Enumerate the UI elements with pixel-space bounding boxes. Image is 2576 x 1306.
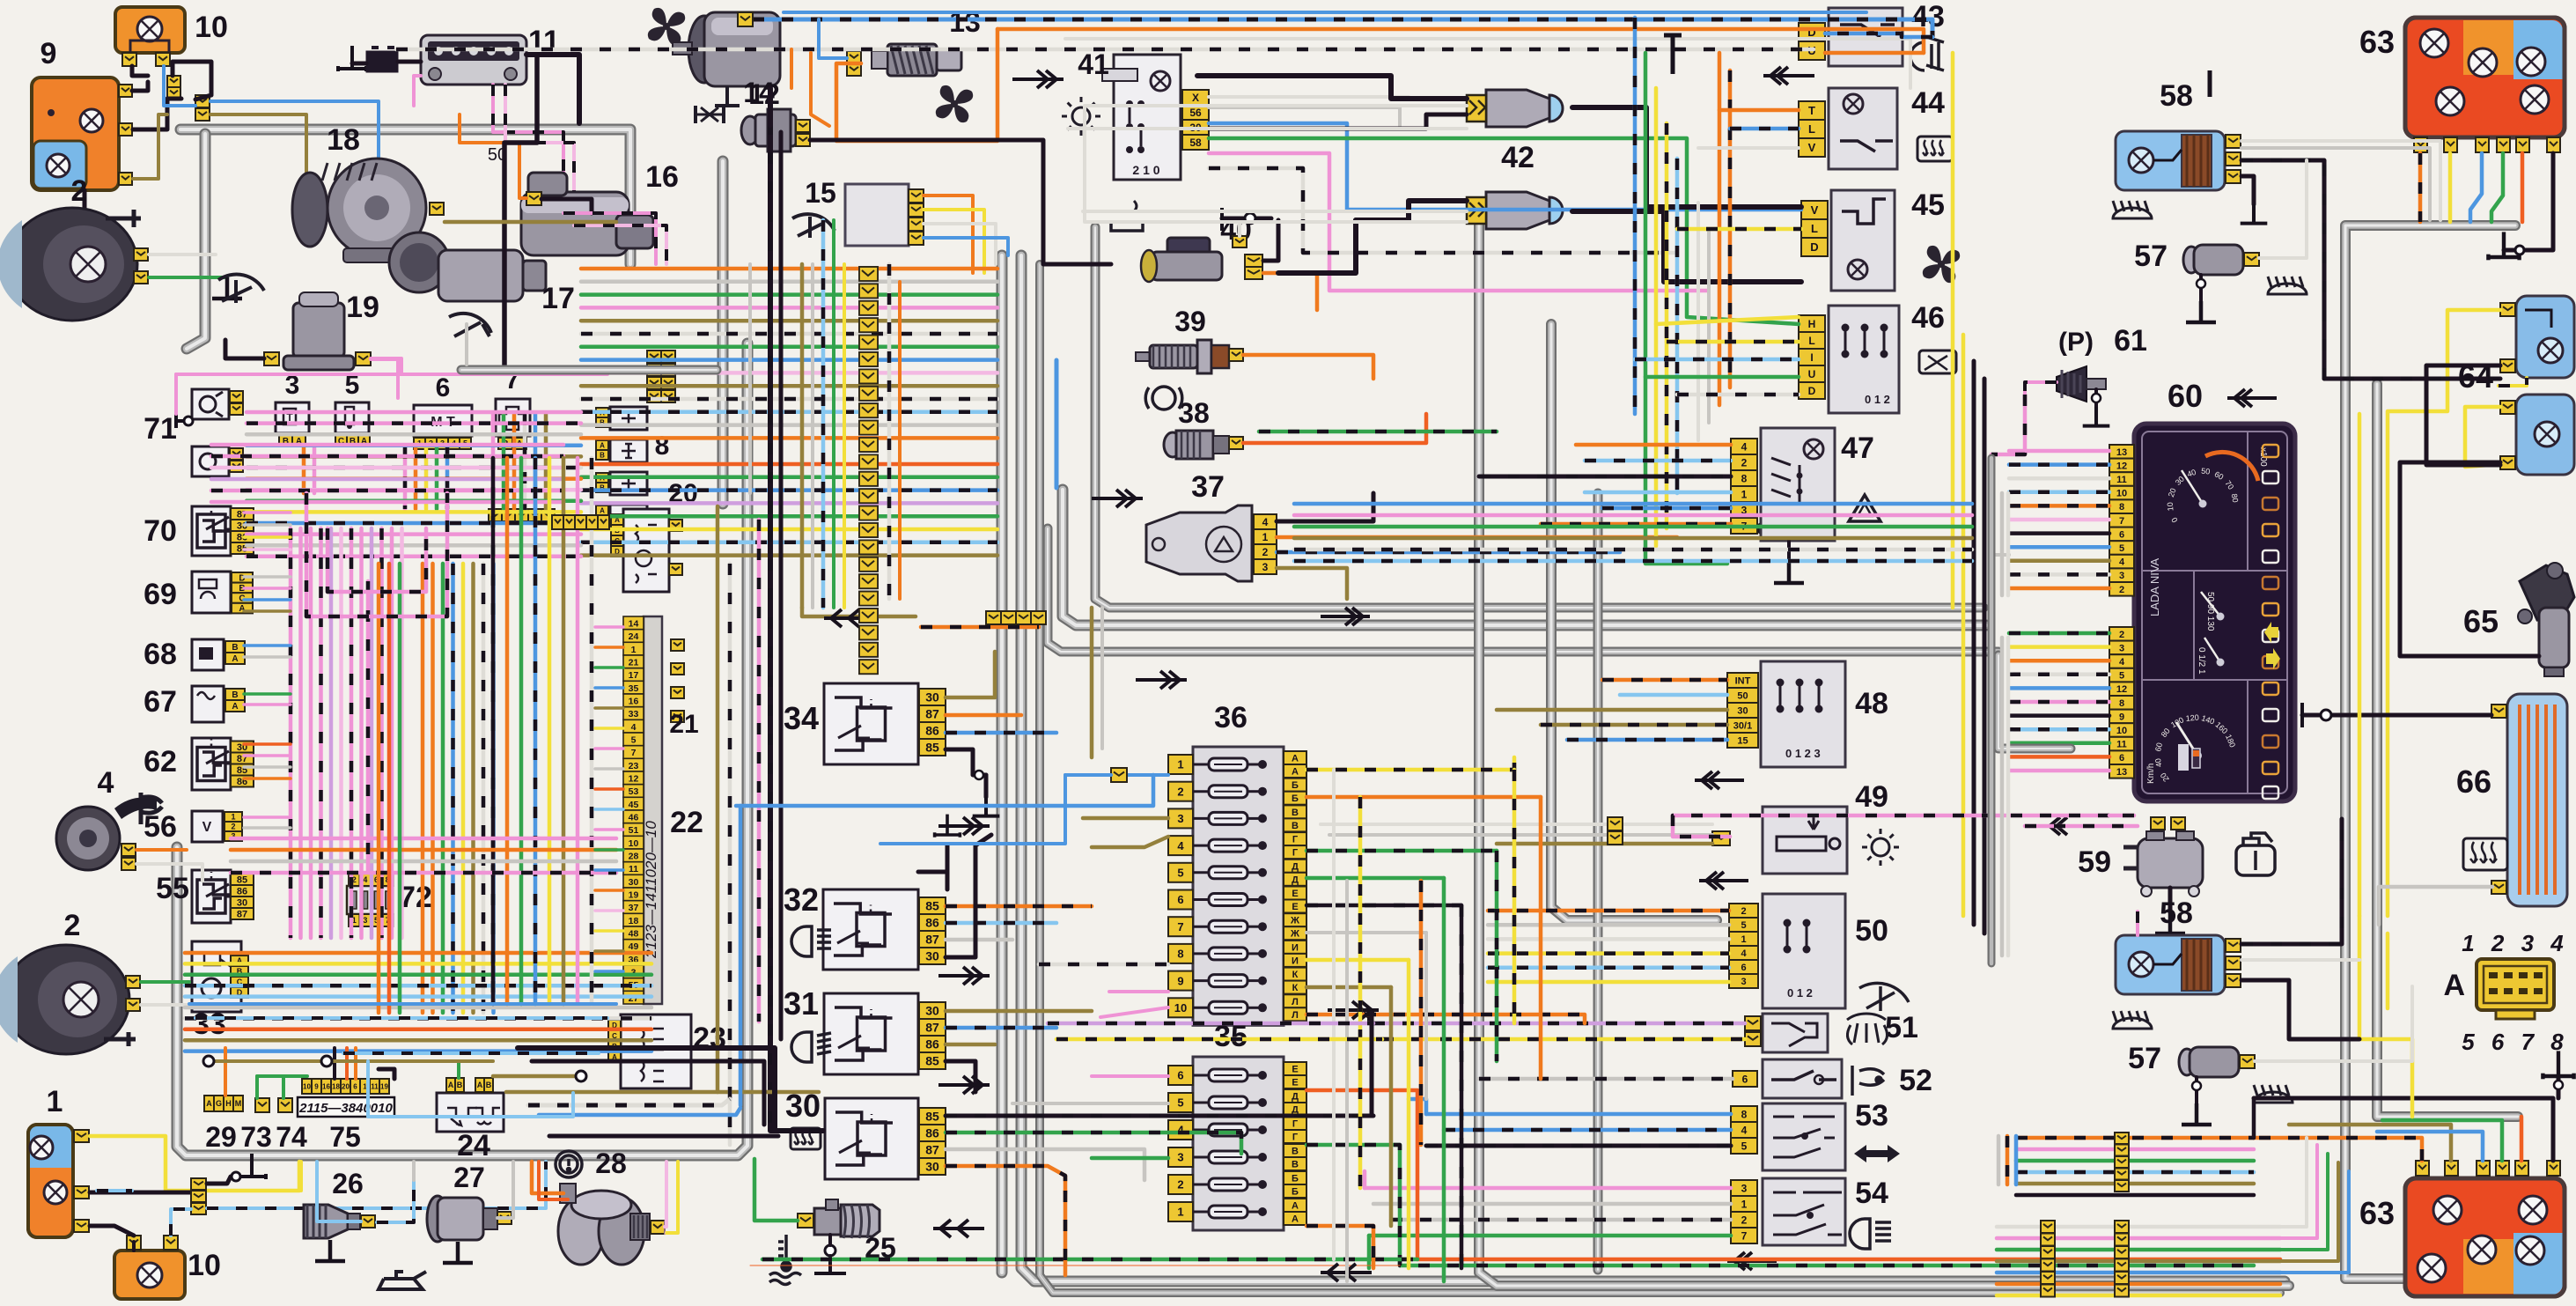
svg-text:B: B <box>457 1081 463 1089</box>
svg-text:2: 2 <box>64 909 81 942</box>
wire 35-5 <box>1012 1102 1168 1105</box>
svg-text:5: 5 <box>1177 1096 1183 1110</box>
svg-text:45: 45 <box>629 800 639 810</box>
handbrake icon <box>1145 387 1182 410</box>
wire <box>946 904 1092 909</box>
svg-text:6: 6 <box>436 373 451 402</box>
wire 36-V <box>1306 849 1497 853</box>
wire <box>132 66 148 76</box>
svg-text:D: D <box>1810 240 1818 254</box>
wire <box>2009 673 2109 677</box>
wire <box>1243 355 1373 379</box>
svg-text:12: 12 <box>2116 461 2127 471</box>
svg-text:10: 10 <box>2166 502 2175 512</box>
heated rear window icon <box>1917 137 1953 161</box>
wire <box>354 1048 357 1079</box>
svg-text:1: 1 <box>1177 758 1183 771</box>
svg-text:2: 2 <box>1262 546 1269 558</box>
wire <box>800 264 805 608</box>
wire to 44 <box>1719 108 1799 113</box>
svg-text:INT: INT <box>1735 676 1751 687</box>
wire <box>379 1069 394 1079</box>
wire to 43D <box>1825 33 1932 37</box>
wire white-dash vertical <box>728 564 732 1145</box>
switch 46 <box>1829 306 1899 413</box>
svg-text:A: A <box>206 1099 212 1108</box>
relay 3 <box>276 402 309 433</box>
wire ecu stub <box>595 868 623 872</box>
relay 34 <box>824 683 946 764</box>
arrow symbol <box>1328 1001 1379 1019</box>
svg-text:73: 73 <box>240 1121 272 1153</box>
svg-text:0 1/2 1: 0 1/2 1 <box>2197 647 2206 675</box>
connector <box>1111 768 1127 782</box>
wire <box>946 1061 975 1092</box>
light rays icon <box>2113 201 2152 218</box>
svg-text:30: 30 <box>925 1004 939 1018</box>
wire 36-4 <box>1092 837 1168 847</box>
svg-text:D: D <box>1808 385 1816 397</box>
wire 42a <box>1197 76 1467 99</box>
wire <box>282 1076 285 1098</box>
svg-text:80: 80 <box>2230 493 2241 504</box>
svg-text:13: 13 <box>2116 447 2127 458</box>
svg-text:0 1 2: 0 1 2 <box>1865 393 1890 406</box>
washer icon <box>1847 1014 1888 1044</box>
fuse 36.4 <box>1168 836 1193 855</box>
svg-text:8: 8 <box>655 432 670 461</box>
wire <box>2382 1120 2502 1161</box>
wire 42b <box>1356 201 1467 220</box>
svg-text:T: T <box>1808 104 1815 117</box>
wire to 45L <box>1677 227 1801 232</box>
wire <box>1409 1099 1426 1114</box>
connector 74 <box>303 1098 317 1112</box>
wire <box>506 1090 718 1095</box>
wire <box>946 1133 1241 1154</box>
fuse 36.2 <box>1168 782 1193 801</box>
wire harness pipe v3 <box>1040 264 2280 1293</box>
svg-text:72: 72 <box>399 881 432 914</box>
wire ecu stub <box>595 909 623 912</box>
svg-text:33: 33 <box>193 1007 226 1041</box>
switch 45 <box>1831 190 1895 291</box>
valve icon <box>696 106 724 123</box>
arrow symbol <box>938 817 990 835</box>
wire harness frame 55 <box>177 343 747 1155</box>
wire <box>1090 608 1094 757</box>
wire <box>1539 797 1543 1079</box>
wiper icon <box>449 314 491 336</box>
svg-text:7: 7 <box>1741 1229 1748 1242</box>
wire <box>2280 1171 2349 1273</box>
svg-text:8: 8 <box>1741 472 1748 484</box>
wire to 50 <box>1488 923 1729 927</box>
wire to 44L <box>1730 127 1799 131</box>
connector 21 <box>671 639 684 651</box>
wire 36-D <box>1306 904 1461 908</box>
arrow symbol <box>938 967 990 985</box>
wire 14 output <box>810 140 1111 264</box>
svg-text:Г: Г <box>1292 848 1299 859</box>
svg-text:В: В <box>1292 821 1299 831</box>
wire <box>1243 414 1426 443</box>
light switch 41 <box>1102 55 1181 180</box>
svg-text:50 90 130: 50 90 130 <box>2205 592 2215 631</box>
svg-text:3: 3 <box>1177 812 1183 825</box>
fuse 36.6 <box>1168 890 1193 910</box>
svg-text:39: 39 <box>1174 306 1206 337</box>
wire yellow right <box>2358 414 2362 916</box>
wire <box>1370 1013 1374 1116</box>
ground <box>2083 407 2110 426</box>
cigarette icon <box>1111 201 1143 231</box>
svg-text:69: 69 <box>144 578 177 611</box>
washer jug icon <box>2236 833 2275 875</box>
wire <box>946 835 991 957</box>
wire <box>1419 881 1424 1145</box>
wire khaki <box>445 220 616 225</box>
wire ecu stub <box>595 848 623 852</box>
interior lamp 58 top <box>2116 131 2225 190</box>
wire <box>574 225 666 264</box>
wire harness pipe v5 <box>1063 490 1986 625</box>
svg-text:Е: Е <box>1292 889 1298 899</box>
wire <box>2418 153 2423 222</box>
connector row <box>489 509 502 521</box>
wire <box>832 220 835 608</box>
switch 53 <box>1763 1103 1845 1170</box>
svg-text:85: 85 <box>925 1054 939 1068</box>
wire band left <box>247 412 581 557</box>
wire 58b <box>2241 148 2430 220</box>
svg-text:85: 85 <box>925 899 939 913</box>
svg-text:7: 7 <box>2119 516 2124 527</box>
svg-text:1 2 3 4: 1 2 3 4 <box>2462 930 2569 956</box>
wire band left mid <box>231 838 616 873</box>
wire <box>244 815 291 819</box>
injector 8.4 <box>610 505 647 528</box>
wire <box>141 980 189 984</box>
svg-text:2: 2 <box>2119 630 2124 640</box>
wire to 47 <box>1576 443 1731 447</box>
svg-text:85: 85 <box>237 875 247 886</box>
wire <box>2009 742 2109 746</box>
wire <box>1512 770 1517 1023</box>
wire <box>457 1061 460 1078</box>
svg-text:58: 58 <box>2160 79 2193 113</box>
wire <box>768 88 773 125</box>
svg-text:49: 49 <box>629 941 639 952</box>
switch 68 <box>192 639 224 670</box>
fuse 36.9 <box>1168 971 1193 991</box>
wire 66 feed <box>2302 713 2491 718</box>
fuse 35.6 <box>1168 1066 1193 1085</box>
svg-text:2: 2 <box>1177 785 1183 798</box>
wire <box>2254 1098 2553 1161</box>
svg-text:A: A <box>2443 969 2465 1002</box>
wire <box>946 713 1021 718</box>
wire <box>2094 389 2098 407</box>
wire to 54-1 <box>1373 1202 1731 1206</box>
svg-text:5: 5 <box>1741 1140 1748 1152</box>
wire <box>549 1134 778 1139</box>
wire <box>1707 229 1711 423</box>
wire <box>1633 18 1638 414</box>
svg-text:A: A <box>232 702 238 712</box>
svg-text:1: 1 <box>1741 1198 1748 1210</box>
arrow symbol <box>938 1076 990 1094</box>
svg-text:30/1: 30/1 <box>1733 721 1752 732</box>
wire <box>1389 987 1394 1226</box>
svg-text:10: 10 <box>1174 1001 1187 1015</box>
wire <box>224 1048 227 1096</box>
wire <box>898 282 902 599</box>
svg-text:19: 19 <box>380 1082 388 1090</box>
svg-text:37: 37 <box>629 903 639 913</box>
wire <box>352 62 366 66</box>
wire to 54-2 <box>1391 1218 1731 1222</box>
wire <box>666 1162 678 1233</box>
starter 16 <box>521 173 653 255</box>
wire <box>1367 1008 1371 1023</box>
diagnostic connector 72 <box>347 874 393 926</box>
wire <box>1997 1271 2280 1275</box>
svg-text:86: 86 <box>925 724 939 738</box>
wire <box>210 114 306 201</box>
svg-text:5: 5 <box>2119 671 2124 682</box>
lamp block 1 <box>28 1125 73 1237</box>
wire to 46L <box>1667 340 1799 344</box>
wire bundle left vertical2 <box>423 564 494 1013</box>
svg-text:63: 63 <box>2359 1195 2395 1231</box>
wire to 47-2 <box>1585 459 1731 463</box>
connector stack bottom-right 1 <box>2041 1221 2055 1233</box>
wire 36-K <box>1306 1015 1585 1023</box>
wire to 54-3 <box>1365 1186 1731 1191</box>
wire <box>90 1136 299 1191</box>
wire <box>210 101 407 181</box>
wire <box>1407 960 1411 1268</box>
svg-text:В: В <box>1292 808 1299 818</box>
arrow symbol <box>824 609 875 627</box>
wire yellow right edge2 <box>1961 335 1966 916</box>
svg-text:10: 10 <box>303 1082 311 1090</box>
immobilizer 24 <box>437 1093 504 1132</box>
wire <box>2377 1132 2483 1161</box>
svg-text:12: 12 <box>2116 684 2127 695</box>
wire <box>1675 159 1680 493</box>
wire to 46 <box>1656 317 1799 324</box>
connector 73 <box>255 1098 269 1112</box>
light rays icon <box>2268 277 2307 294</box>
horn icon <box>1852 1066 1884 1096</box>
wire 41 <box>1209 153 1708 291</box>
svg-text:6: 6 <box>1742 1073 1748 1085</box>
door switch 57 bottom <box>2179 1047 2239 1077</box>
wire <box>946 845 950 872</box>
wire black vertical2 <box>779 132 784 1039</box>
wire 64 black <box>2426 365 2500 465</box>
heater fan icon <box>648 8 685 45</box>
wire <box>2557 1076 2561 1098</box>
svg-text:Ж: Ж <box>1290 929 1299 940</box>
wire <box>2009 559 2109 564</box>
wire <box>2520 1117 2524 1161</box>
wire <box>414 76 421 106</box>
sensor 5 <box>335 402 369 433</box>
coolant temp sensor 25 <box>814 1199 880 1238</box>
svg-text:16: 16 <box>322 1082 330 1090</box>
svg-text:50: 50 <box>2201 467 2211 476</box>
wire 36-9 <box>1109 990 1168 993</box>
wire ecu stub <box>595 646 623 649</box>
speed sensor 39 <box>1136 340 1229 373</box>
washer pump 59 <box>2123 831 2203 896</box>
wire <box>802 608 916 616</box>
wire <box>1460 905 1464 1268</box>
wire 41-45 <box>1209 123 1801 210</box>
svg-text:87: 87 <box>925 933 939 947</box>
svg-text:5: 5 <box>2119 543 2124 554</box>
headlight icon <box>1850 1219 1891 1249</box>
svg-text:H: H <box>1808 318 1816 330</box>
wire harness spine <box>1988 458 1996 963</box>
wire <box>811 53 829 126</box>
svg-text:6: 6 <box>1177 1069 1183 1082</box>
svg-text:1: 1 <box>631 645 637 655</box>
wire pink vertical <box>757 520 762 1022</box>
power stem <box>2208 70 2212 97</box>
arrow symbol <box>933 1220 984 1237</box>
wire harness pipe 17 <box>461 365 717 375</box>
svg-text:71: 71 <box>144 412 177 446</box>
svg-text:46: 46 <box>1911 301 1945 335</box>
svg-text:Б: Б <box>1292 793 1299 804</box>
wire <box>2136 911 2139 935</box>
svg-text:В: В <box>1292 1147 1299 1157</box>
svg-text:19: 19 <box>346 291 379 324</box>
wire 58bot <box>2241 819 2342 944</box>
wire <box>460 114 526 198</box>
wire black loop2 <box>532 1061 764 1125</box>
svg-text:0 1 2: 0 1 2 <box>1787 986 1813 1000</box>
light icon <box>1862 829 1899 866</box>
wire <box>541 199 592 213</box>
wire bundle 72 <box>379 564 400 1013</box>
svg-text:35: 35 <box>629 683 639 694</box>
svg-text:28: 28 <box>629 851 639 861</box>
svg-text:15: 15 <box>1737 736 1748 747</box>
svg-text:15: 15 <box>805 177 836 209</box>
wire <box>1997 1294 2280 1298</box>
wire <box>924 224 996 264</box>
wire ecu stub <box>595 747 623 750</box>
wire drop3 <box>304 447 314 493</box>
switch 43 <box>1829 8 1903 66</box>
wire <box>1696 203 1700 440</box>
wire <box>946 652 995 697</box>
wire <box>133 114 167 179</box>
wire <box>2016 1182 2254 1186</box>
wire top bus orange <box>997 29 1924 53</box>
wire <box>90 1191 192 1195</box>
svg-text:21: 21 <box>669 710 698 739</box>
relay 32 <box>823 889 946 970</box>
wire to 51 <box>1373 1022 1745 1026</box>
unit 6 <box>414 405 472 436</box>
wire to 48-15 <box>1567 738 1727 742</box>
wire black right edge <box>1972 361 1976 925</box>
svg-text:Г: Г <box>1292 1133 1299 1143</box>
wire <box>90 1226 134 1236</box>
switch 71b <box>192 446 229 476</box>
fuse 36.10 <box>1168 998 1193 1017</box>
svg-text:4: 4 <box>363 875 367 884</box>
wire harness pipe v6 <box>1048 528 1998 652</box>
wire <box>946 921 1056 926</box>
lamp block 9 <box>32 77 119 190</box>
svg-text:6: 6 <box>353 1082 357 1090</box>
svg-text:19: 19 <box>629 889 639 900</box>
svg-text:45: 45 <box>1911 188 1945 222</box>
wire bottom green <box>762 1258 1417 1262</box>
wire <box>2009 700 2109 705</box>
wire <box>244 644 291 647</box>
switch 50 <box>1763 894 1845 1008</box>
switch 48 <box>1761 661 1845 767</box>
wire <box>750 1265 1400 1266</box>
wire <box>563 213 656 264</box>
wire to 49c <box>1497 842 1712 846</box>
wire <box>173 62 211 100</box>
svg-text:V: V <box>202 820 212 835</box>
switch 67 <box>192 686 224 722</box>
svg-text:4: 4 <box>1741 948 1747 959</box>
wire to 50 <box>1488 937 1729 941</box>
wire <box>2195 1077 2198 1103</box>
connector row <box>986 611 1001 624</box>
wire <box>1997 1282 2280 1287</box>
sensor 38 <box>1164 431 1229 459</box>
svg-text:49: 49 <box>1855 780 1888 814</box>
svg-text:34: 34 <box>784 700 819 736</box>
svg-text:22: 22 <box>670 806 703 839</box>
switch 52 <box>1763 1059 1842 1098</box>
switch 54 <box>1763 1178 1845 1245</box>
turn arrows icon <box>1854 1145 1900 1162</box>
hazard icon <box>1849 495 1880 521</box>
svg-text:3: 3 <box>2119 571 2124 581</box>
ground <box>2186 301 2216 322</box>
wiper motor 65 <box>2518 563 2574 676</box>
power stem <box>1664 35 1682 74</box>
svg-text:4: 4 <box>1177 839 1184 852</box>
wire <box>195 1016 607 1020</box>
svg-text:1: 1 <box>1177 1206 1183 1219</box>
svg-text:86: 86 <box>925 916 939 930</box>
svg-text:4: 4 <box>1177 1124 1184 1137</box>
switch 44 <box>1829 88 1897 169</box>
wire <box>1787 541 1791 562</box>
wire <box>2241 176 2254 204</box>
svg-text:16: 16 <box>645 160 679 194</box>
wire ecu stub <box>595 949 623 953</box>
wire <box>493 85 563 213</box>
wire <box>1997 1236 2280 1241</box>
relay 31 <box>824 993 946 1074</box>
wire <box>2280 1162 2338 1261</box>
